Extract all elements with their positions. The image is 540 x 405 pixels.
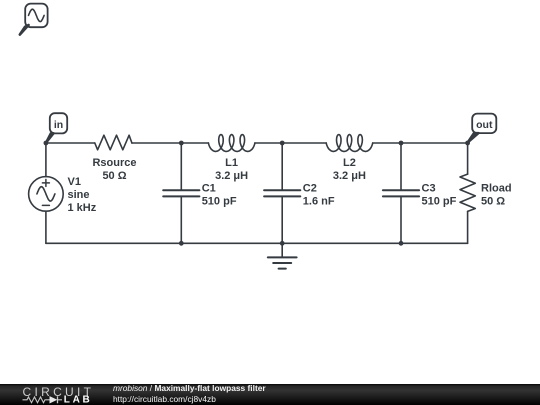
svg-text:out: out — [476, 119, 493, 131]
capacitor C3 — [383, 190, 419, 196]
junction node C2 top — [280, 141, 285, 146]
wire bottom rail — [46, 242, 468, 244]
svg-text:C1: C1 — [202, 182, 216, 194]
wire V1 top lead — [45, 143, 47, 177]
junction node C1 bottom — [179, 241, 184, 246]
wire in node to Rsource — [46, 142, 95, 144]
wire Rload bottom lead — [467, 211, 469, 243]
svg-text:C3: C3 — [422, 182, 436, 194]
wire ground stub — [281, 243, 283, 257]
svg-text:Rsource: Rsource — [92, 157, 136, 169]
svg-text:1 kHz: 1 kHz — [68, 202, 97, 214]
junction node C2 bottom — [280, 241, 285, 246]
svg-text:50 Ω: 50 Ω — [102, 170, 126, 182]
wire out node to Rload — [467, 143, 469, 174]
resistor Rload — [460, 174, 475, 211]
svg-text:50 Ω: 50 Ω — [481, 195, 505, 207]
inductor L2 — [326, 135, 373, 152]
wire C1 bottom lead — [180, 196, 182, 243]
junction node C3 bottom — [399, 241, 404, 246]
svg-text:Rload: Rload — [481, 182, 512, 194]
footer bar — [0, 384, 540, 405]
svg-text:L2: L2 — [343, 157, 356, 169]
wire C3 bottom lead — [400, 196, 402, 243]
junction node C1 top — [179, 141, 184, 146]
svg-text:in: in — [54, 119, 63, 131]
inductor L1 — [208, 135, 255, 152]
svg-text:sine: sine — [68, 189, 90, 201]
svg-text:mrobison / Maximally-flat lowp: mrobison / Maximally-flat lowpass filter — [113, 383, 266, 393]
svg-text:L1: L1 — [225, 157, 238, 169]
svg-text:LAB: LAB — [64, 395, 93, 405]
junction node out — [465, 141, 470, 146]
node flag in — [46, 113, 67, 143]
junction node C3 top — [399, 141, 404, 146]
wire V1 bottom lead — [45, 211, 47, 243]
wire C1 top lead — [180, 143, 182, 190]
svg-text:510 pF: 510 pF — [422, 195, 457, 207]
resistor Rsource — [95, 135, 132, 150]
wire C2 bottom lead — [281, 196, 283, 243]
capacitor C1 — [163, 190, 199, 196]
node flag out — [468, 114, 497, 143]
wire C2 top lead — [281, 143, 283, 190]
svg-text:http://circuitlab.com/cj8v4zb: http://circuitlab.com/cj8v4zb — [113, 394, 216, 404]
wire L1 to node C2 — [255, 142, 326, 144]
svg-text:V1: V1 — [68, 176, 81, 188]
junction node in — [44, 141, 49, 146]
svg-text:510 pF: 510 pF — [202, 195, 237, 207]
ground — [268, 257, 297, 268]
svg-text:3.2 μH: 3.2 μH — [215, 170, 248, 182]
wire C3 top lead — [400, 143, 402, 190]
svg-text:1.6 nF: 1.6 nF — [303, 195, 335, 207]
wire Rsource to node C1 — [132, 142, 209, 144]
svg-text:3.2 μH: 3.2 μH — [333, 170, 366, 182]
voltage source V1 — [29, 177, 64, 212]
svg-text:C2: C2 — [303, 182, 317, 194]
capacitor C2 — [264, 190, 300, 196]
logo resistor-diode glyph — [23, 396, 63, 403]
voltage source icon overlay — [20, 4, 48, 35]
wire L2 to out node — [373, 142, 468, 144]
